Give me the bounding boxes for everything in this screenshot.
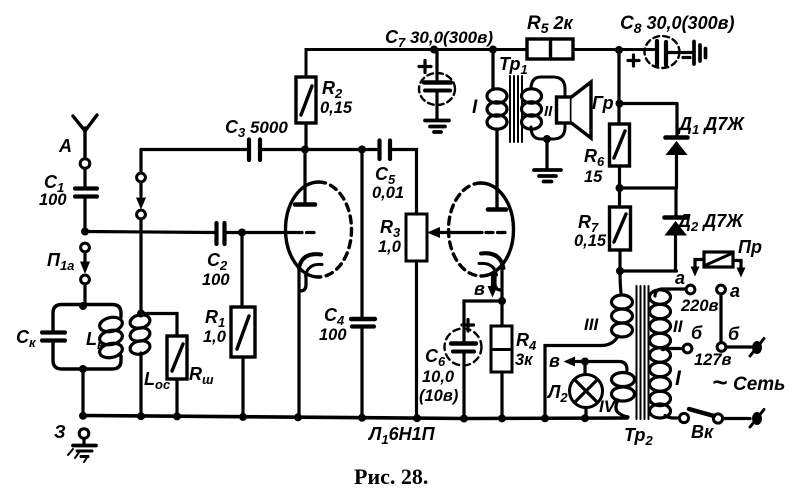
MIDDLE	[141, 77, 514, 418]
svg-text:б: б	[728, 324, 740, 344]
tube Л1 triode 1 envelope	[286, 182, 352, 277]
diode D1 D7Zh	[666, 104, 688, 189]
resistor R5 2k (box with center divider on rail)	[527, 39, 573, 59]
node junction R1 on grid wire	[238, 229, 246, 237]
svg-text:а: а	[730, 281, 740, 301]
node junction tube1 plate / R2	[301, 146, 309, 154]
wire C2 to tube1 grid	[226, 231, 292, 234]
capacitor C8 (electrolytic, dashed circle)	[628, 36, 690, 68]
resistor R2 0,15	[296, 77, 316, 123]
wire Rsh bottom to bus	[175, 379, 178, 416]
inductor Loc (feedback coil)	[129, 313, 151, 356]
chassis ground right of C8	[694, 42, 706, 65]
svg-text:0,15: 0,15	[320, 99, 353, 117]
svg-text:Д1 Д7Ж: Д1 Д7Ж	[677, 114, 745, 137]
svg-text:100: 100	[319, 326, 347, 344]
capacitor C2 100	[217, 223, 225, 244]
wire R2 bottom lead	[304, 123, 307, 149]
diode D2 D7Zh	[665, 188, 688, 271]
svg-text:1,0: 1,0	[378, 238, 402, 256]
terminal b (plug side)	[717, 343, 726, 352]
svg-text:0,15: 0,15	[574, 232, 607, 250]
svg-text:Д2 Д7Ж: Д2 Д7Ж	[676, 211, 744, 234]
wire ground bus	[83, 416, 627, 419]
wire C3 to C5	[262, 148, 377, 151]
svg-text:0,01: 0,01	[372, 184, 404, 202]
node tank bottom junction	[79, 365, 87, 373]
net arrow v (lamp heater net)	[564, 357, 583, 367]
mains pin bottom	[750, 410, 764, 428]
wire screen rail (switch to C3)	[141, 148, 246, 151]
wire C4 branch	[360, 150, 363, 318]
svg-text:в: в	[474, 279, 485, 299]
svg-text:IV: IV	[599, 397, 617, 416]
tube2 cathode	[479, 253, 504, 290]
wire R5 to C8	[573, 48, 654, 51]
wire C5 to R3	[392, 150, 417, 215]
svg-text:100: 100	[39, 191, 67, 209]
wire tank bottom to bus	[81, 369, 84, 416]
LEFT-COLUMN	[42, 115, 627, 462]
capacitor C3 5000	[249, 140, 260, 161]
antenna A	[73, 115, 97, 158]
svg-text:Л16Н1П: Л16Н1П	[367, 424, 436, 447]
svg-text:а: а	[675, 268, 685, 288]
antenna socket circle	[80, 159, 90, 169]
RIGHT	[545, 50, 764, 427]
tube2 grid dashes	[486, 231, 505, 234]
terminal a (plug side)	[717, 285, 726, 294]
svg-text:в: в	[549, 351, 560, 371]
node junction C7 on rail	[430, 46, 438, 54]
terminal b (transformer 127v tap)	[683, 344, 692, 353]
resistor R4 3k	[491, 301, 512, 418]
transformer Tp2 core	[637, 286, 649, 419]
node junction lamp top	[581, 358, 589, 366]
svg-text:Рис. 28.: Рис. 28.	[354, 464, 428, 489]
svg-text:б: б	[691, 323, 703, 343]
tube1 grid dashes	[293, 231, 314, 234]
svg-text:1,0: 1,0	[203, 328, 227, 346]
node bus junctions	[79, 412, 589, 423]
net arrow v (heater) below tube2	[488, 276, 498, 298]
svg-text:3к: 3к	[515, 351, 534, 369]
wire grid line (C1 node to tube1 grid)	[85, 232, 214, 233]
svg-text:С3 5000: С3 5000	[225, 117, 288, 140]
svg-text:Сеть: Сеть	[733, 374, 785, 395]
mains pin top	[750, 339, 764, 357]
ground under Tp1 secondary	[534, 170, 561, 182]
wire R3 bottom to bus	[415, 261, 418, 418]
wire plug b to mains pin	[726, 345, 751, 348]
transformer Tp2 winding I	[650, 348, 678, 418]
switch Vk	[679, 409, 750, 423]
transformer Tp2 winding III	[545, 271, 633, 416]
svg-text:Пр: Пр	[738, 237, 762, 257]
svg-text:З: З	[54, 422, 66, 442]
resistor Rsh	[167, 336, 187, 379]
wire Loc top to Rsh	[141, 314, 177, 337]
capacitor C5 0,01	[380, 141, 391, 160]
tube Л1 triode 2 envelope	[449, 183, 514, 276]
svg-text:А: А	[58, 136, 72, 156]
tube2 plate	[488, 131, 506, 210]
lamp L2	[570, 362, 603, 419]
node junction cathode / C6 / R4	[498, 297, 506, 305]
wire plug a to plug b	[719, 294, 722, 343]
wiper arrow into R3	[427, 227, 482, 238]
node Loc top junction	[137, 310, 145, 318]
wire top rail left (R2 top to R5)	[306, 50, 527, 78]
wire right rail top	[617, 50, 620, 124]
resistor R7 0,15	[610, 207, 631, 250]
node junction Tp1 primary on rail	[489, 46, 497, 54]
wire Loc bottom to bus	[139, 353, 142, 416]
svg-text:10,0: 10,0	[422, 368, 455, 386]
svg-text:(10в): (10в)	[419, 387, 459, 405]
ground under C7	[425, 121, 449, 133]
capacitor C6 (electrolytic, dashed circle)	[445, 320, 482, 419]
capacitor C4 100	[351, 319, 375, 418]
transformer Tp1 core	[510, 76, 522, 142]
svg-text:Вк: Вк	[691, 422, 714, 442]
svg-text:15: 15	[584, 168, 603, 186]
switch P1a contacts	[80, 243, 90, 304]
resistor R1 1,0	[231, 307, 255, 357]
transformer Tp1 primary I	[487, 50, 507, 209]
speaker Gr	[557, 82, 592, 138]
potentiometer R3 1,0	[406, 214, 427, 261]
node junction ground on Tp1 secondary	[543, 135, 551, 143]
node junction mid rectifier	[616, 184, 624, 192]
svg-text:220в: 220в	[680, 297, 719, 315]
svg-text:~: ~	[712, 367, 727, 397]
node junction bottom rectifier	[616, 267, 624, 275]
terminal a (transformer 220v tap)	[686, 285, 695, 294]
tank circuit loop (rounded rect)	[53, 305, 121, 370]
tap b on winding II	[660, 346, 683, 352]
resistor R6 15	[610, 124, 630, 166]
wire Tp1 secondary to ground	[545, 139, 548, 169]
tube1 cathode	[299, 254, 322, 291]
transformer Tp2 winding IV	[585, 362, 635, 418]
node tank top junction	[79, 302, 87, 310]
wire bottom junction to D2	[620, 269, 677, 272]
ground terminal Z	[68, 429, 96, 462]
capacitor C7 (electrolytic, dashed circle, plus, ground)	[419, 50, 455, 120]
transformer Tp2 winding II	[650, 289, 687, 348]
wire R1 top lead	[240, 233, 243, 308]
node junction grid wire on antenna line	[81, 228, 89, 236]
node junction right rail on top rail	[615, 46, 623, 54]
svg-text:I: I	[472, 97, 478, 118]
wire antenna socket to C1	[83, 169, 86, 187]
svg-text:II: II	[673, 317, 684, 336]
capacitor Ck (in tank left branch)	[42, 333, 65, 341]
wire R6 to R7	[618, 166, 621, 207]
fuse Pr	[691, 252, 746, 278]
capacitor C1 100	[75, 189, 97, 232]
transformer Tp1 secondary II loop	[522, 77, 566, 139]
svg-text:Гр: Гр	[592, 93, 614, 113]
node junction C4 line	[358, 146, 366, 154]
tube1 plate	[295, 150, 315, 205]
wire R7 to winding III node	[618, 250, 621, 271]
node junction speaker rail	[616, 100, 624, 108]
wire C8 to chassis	[668, 51, 692, 54]
svg-text:II: II	[544, 103, 553, 120]
wire tube2 cathode down	[500, 266, 503, 301]
inductor Lk (tank coil)	[98, 315, 123, 359]
wire R1 bottom to bus	[241, 357, 244, 417]
wire tube1 cathode to bus	[297, 266, 300, 417]
wire cathode node to C6	[464, 301, 502, 341]
svg-text:100: 100	[202, 271, 230, 289]
wire rail to diode D1 branch	[620, 102, 678, 105]
switch P1b column from top wire	[136, 150, 146, 314]
svg-text:R5 2к: R5 2к	[527, 13, 574, 36]
svg-text:III: III	[584, 315, 599, 334]
wire mid junction to diodes	[620, 186, 677, 189]
WIRES-TOP	[306, 36, 706, 208]
